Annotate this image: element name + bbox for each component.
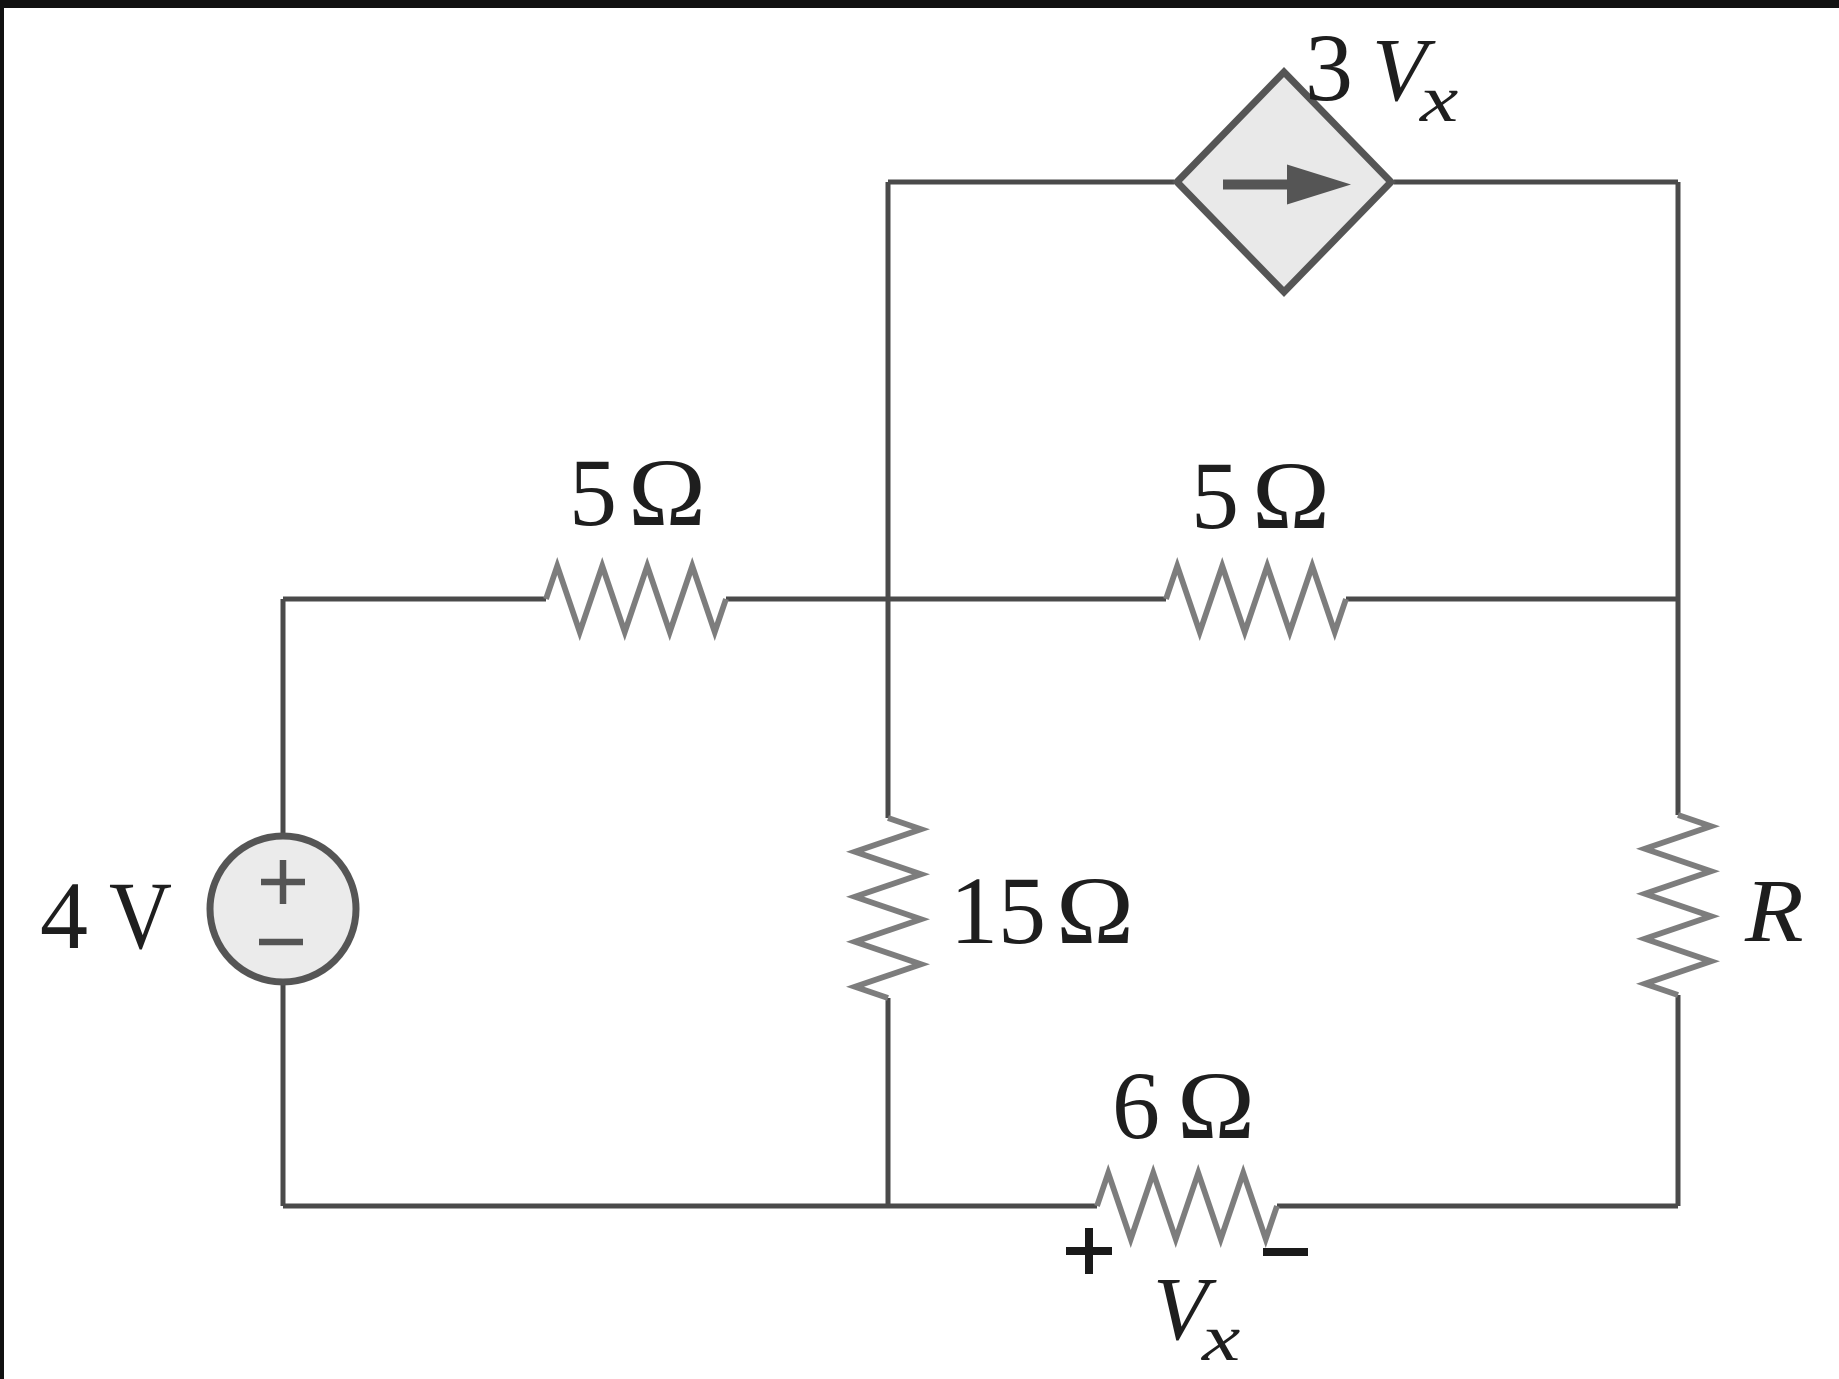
svg-text:15: 15 bbox=[950, 857, 1046, 964]
svg-text:Ω: Ω bbox=[628, 439, 706, 546]
svg-text:6: 6 bbox=[1112, 1052, 1160, 1159]
svg-text:x: x bbox=[1419, 63, 1459, 136]
svg-text:x: x bbox=[1201, 1302, 1241, 1375]
svg-text:5: 5 bbox=[1191, 442, 1239, 549]
svg-text:5: 5 bbox=[569, 439, 617, 546]
svg-text:V: V bbox=[109, 862, 172, 969]
svg-text:4: 4 bbox=[40, 862, 88, 969]
svg-text:3: 3 bbox=[1305, 14, 1353, 121]
svg-text:Ω: Ω bbox=[1252, 442, 1330, 549]
svg-text:Ω: Ω bbox=[1056, 857, 1134, 964]
svg-text:Ω: Ω bbox=[1177, 1052, 1255, 1159]
svg-text:R: R bbox=[1744, 862, 1804, 961]
